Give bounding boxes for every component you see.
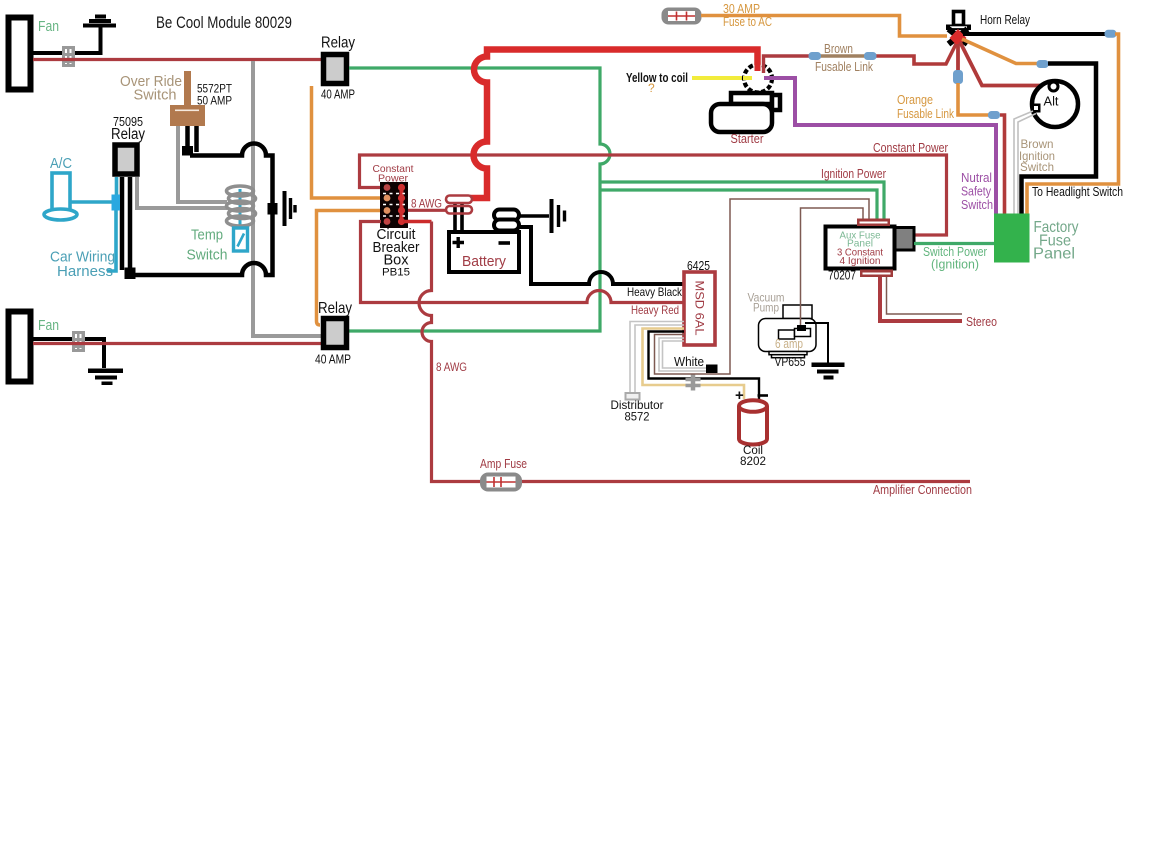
svg-text:Brown: Brown [824, 42, 853, 56]
wire bright-red stub into starter [755, 52, 761, 71]
relay RLY1 (top 40 AMP) [321, 35, 355, 102]
wire dark-red starter to brown fusable link to horn relay [764, 56, 811, 73]
svg-text:4 Ignition: 4 Ignition [840, 255, 881, 267]
wire black heavy-black battery to MSD (hop over green) [519, 227, 684, 284]
wire black relay leads down to junction [122, 177, 130, 270]
horn relay symbol [946, 12, 971, 45]
wire dark-red stereo [880, 277, 962, 321]
wire dark-red after link to horn hub [876, 41, 958, 64]
wire thin gray alternator pair to factory panel [1014, 111, 1036, 214]
label Nutral Safety Switch [961, 171, 993, 212]
svg-text:8 AWG: 8 AWG [411, 199, 442, 211]
wire green Ignition Power A to aux panel [600, 182, 884, 220]
relay RLY2 (bottom 40 AMP) [315, 300, 352, 367]
svg-text:Switch: Switch [187, 248, 228, 264]
wire thin brown white-wire loop MSD to aux panel [655, 199, 870, 374]
wire orange fusable link (hub down, right) [958, 83, 990, 115]
wire black loop (override to ground to relay, hops over gray) [134, 144, 273, 276]
coil [739, 400, 767, 444]
wire orange relay1 to breaker stub (row2) [312, 86, 382, 198]
bead below hub [953, 70, 963, 84]
temp switch box [234, 228, 248, 251]
svg-text:40 AMP: 40 AMP [321, 88, 355, 102]
aux panel side gray box [895, 228, 914, 251]
wire tan MSD to coil positive [643, 329, 745, 400]
svg-text:Heavy Red: Heavy Red [631, 303, 679, 317]
wire black hub to right (with bead) [963, 32, 1107, 36]
alternator side connector [1032, 104, 1041, 113]
svg-text:(Ignition): (Ignition) [931, 258, 979, 272]
svg-text:Switch: Switch [134, 88, 177, 104]
fan FAN1 (top left) [9, 18, 31, 90]
connector J2 on fan2 wire [72, 331, 85, 352]
svg-text:Fusable Link: Fusable Link [897, 107, 955, 121]
wire black fan1 to ground [33, 27, 101, 53]
svg-text:Temp: Temp [191, 228, 223, 244]
node hub (red junction) [950, 29, 967, 47]
svg-text:Relay: Relay [111, 126, 145, 143]
wire green Switch Power to factory panel [914, 242, 994, 245]
wire black vacuum pump to ground [805, 323, 828, 363]
wire gray override switch to temp coil [178, 126, 227, 202]
svg-text:6425: 6425 [687, 259, 710, 273]
wire black ignition switch loop into factory panel [1022, 64, 1097, 215]
wire thin stereo [887, 277, 963, 314]
wire black fan2 to ground [33, 339, 104, 368]
svg-text:White: White [674, 355, 704, 369]
ground G4 (right-facing) [285, 191, 296, 226]
svg-text:Switch: Switch [961, 198, 993, 212]
junction square (relay) [125, 268, 136, 280]
wire yellow stub into starter [743, 76, 752, 80]
override switch body [170, 105, 205, 126]
vacuum pump [759, 305, 817, 358]
wire cyan A/C to harness connector [70, 200, 112, 204]
wire gray long (relay1 tap down to relay2) [253, 61, 321, 336]
svg-text:Harness: Harness [57, 263, 113, 280]
svg-text:Orange: Orange [897, 93, 933, 107]
bead on link right [864, 52, 877, 60]
svg-text:8 AWG: 8 AWG [436, 362, 467, 374]
svg-text:Battery: Battery [462, 253, 506, 270]
ground G1 (above fan1 wire, inverted) [83, 15, 116, 28]
svg-text:+: + [735, 387, 744, 404]
svg-text:?: ? [648, 81, 655, 95]
svg-text:Yellow to coil: Yellow to coil [626, 71, 688, 85]
wire bright-red battery to starter (two hops) [467, 50, 758, 199]
svg-text:Safety: Safety [961, 185, 992, 199]
aux panel top connector [857, 219, 890, 227]
harness connector (blue) [112, 195, 121, 211]
svg-text:Starter: Starter [731, 132, 764, 146]
svg-text:To Headlight Switch: To Headlight Switch [1032, 185, 1123, 199]
MSD 6AL box [684, 272, 715, 345]
wire dark-red fan1 to relay1 [33, 58, 321, 61]
white wire terminal [706, 365, 718, 374]
wire thin gray distributor pair [630, 322, 684, 394]
amp fuse [480, 473, 522, 492]
wire dark-red heavy-red / breaker box outline [361, 222, 685, 303]
svg-text:Pump: Pump [753, 301, 779, 315]
wire orange breaker stub (row3) to relay2 [317, 211, 382, 326]
svg-text:Heavy Black: Heavy Black [627, 285, 683, 299]
wire thin gray white-wire pair [659, 338, 706, 371]
alternator terminal circle [1049, 82, 1058, 91]
label Circuit Breaker Box PB15 [373, 227, 420, 279]
battery negative bolt connector [494, 210, 519, 231]
svg-text:Nutral: Nutral [961, 171, 992, 185]
wire green relay1 to junction, down to relay2 (hops constant-power) [349, 68, 610, 331]
wire red hub down to bead [956, 44, 960, 72]
svg-text:Horn Relay: Horn Relay [980, 13, 1031, 27]
distributor connector [626, 393, 640, 400]
relay RLY3 75095 [115, 145, 137, 174]
battery positive bolt connector [446, 196, 472, 233]
wire gray relay to temp coil [137, 177, 227, 208]
wire dark-red fan2 to relay2 [33, 342, 321, 345]
svg-text:Relay: Relay [321, 35, 355, 52]
svg-text:VP655: VP655 [775, 355, 806, 369]
fan FAN2 (bottom left) [9, 312, 31, 382]
battery [449, 232, 519, 272]
wire dark-red after orange link into factory panel [1000, 115, 1005, 214]
junction square (override) [182, 146, 193, 156]
wire yellow to starter [692, 76, 753, 80]
svg-text:40 AMP: 40 AMP [315, 353, 351, 367]
svg-text:Relay: Relay [318, 300, 352, 317]
fuse 30 AMP [662, 8, 702, 25]
svg-text:Fan: Fan [38, 18, 59, 35]
svg-text:Switch: Switch [1020, 160, 1054, 174]
ground nub (temp circuit) [268, 203, 278, 215]
wire cyan relay to connector to harness [107, 177, 117, 271]
wire orange hub to ignition-switch bead [962, 39, 1038, 64]
label Brown Ignition Switch [1019, 137, 1055, 174]
svg-text:MSD 6AL: MSD 6AL [693, 281, 705, 337]
svg-text:Constant Power: Constant Power [873, 141, 948, 155]
wire dark-red 8 AWG breaker to battery bolt [408, 209, 447, 212]
alternator circle [1032, 81, 1078, 127]
wire purple starter to factory panel (Nutral Safety Switch) [764, 78, 996, 214]
bead on ignition switch wire [1037, 60, 1049, 68]
wire black MSD to coil negative [649, 332, 760, 400]
svg-text:Amplifier Connection: Amplifier Connection [873, 483, 972, 497]
svg-text:Fusable Link: Fusable Link [815, 60, 874, 74]
bead on link left [809, 52, 822, 60]
svg-text:50 AMP: 50 AMP [197, 94, 232, 108]
factory fuse panel [994, 214, 1030, 263]
wire bright-red breaker row4 exit [403, 220, 432, 223]
wire black override switch leads [188, 126, 197, 152]
svg-text:Fan: Fan [38, 317, 59, 334]
override switch stem [184, 71, 191, 106]
wire orange To Headlight Switch [1027, 34, 1119, 214]
wire red hub to alternator terminal [960, 42, 1048, 86]
wire dark-red Constant Power (breaker row1 to gray box) [360, 155, 947, 235]
vacuum pump terminal [797, 325, 806, 331]
svg-text:A/C: A/C [50, 155, 72, 172]
ground G3 (vacuum pump) [812, 363, 845, 380]
barb connector on tan wire [686, 374, 701, 391]
svg-text:Panel: Panel [1033, 246, 1075, 263]
wire thin brown vacuum pump to aux panel [801, 208, 864, 325]
svg-text:Amp Fuse: Amp Fuse [480, 457, 527, 471]
bead top right [1105, 30, 1117, 38]
label Factory Fuse Panel [1033, 219, 1079, 263]
svg-text:Alt: Alt [1044, 95, 1060, 109]
A/C symbol [44, 173, 77, 220]
wire dark-red 8 AWG down to amplifier line (two hops) [419, 222, 970, 482]
svg-text:70207: 70207 [828, 269, 856, 283]
aux fuse panel box [826, 227, 895, 283]
wire green B to aux panel [600, 190, 877, 220]
wire black battery negative to ground [519, 214, 549, 218]
svg-text:Stereo: Stereo [966, 315, 997, 329]
starter body [711, 93, 780, 132]
temp switch coil [239, 189, 242, 228]
svg-text:PB15: PB15 [382, 267, 410, 279]
svg-text:8202: 8202 [740, 454, 766, 468]
connector J1 on fan1 wire [62, 46, 75, 67]
ground G2 (right-facing) [552, 199, 565, 233]
wire orange fuse to horn hub [701, 16, 947, 37]
brown fusable link segment [820, 54, 866, 57]
bead on orange link [988, 111, 1000, 119]
svg-text:6 amp: 6 amp [775, 337, 803, 351]
starter solenoid circle [744, 65, 772, 93]
ground G5 [88, 369, 123, 386]
svg-text:Be Cool Module 80029: Be Cool Module 80029 [156, 14, 292, 32]
svg-text:Ignition Power: Ignition Power [821, 167, 886, 181]
svg-text:8572: 8572 [625, 410, 650, 424]
breaker terminal block [380, 182, 408, 228]
aux panel bottom connector [860, 270, 893, 278]
